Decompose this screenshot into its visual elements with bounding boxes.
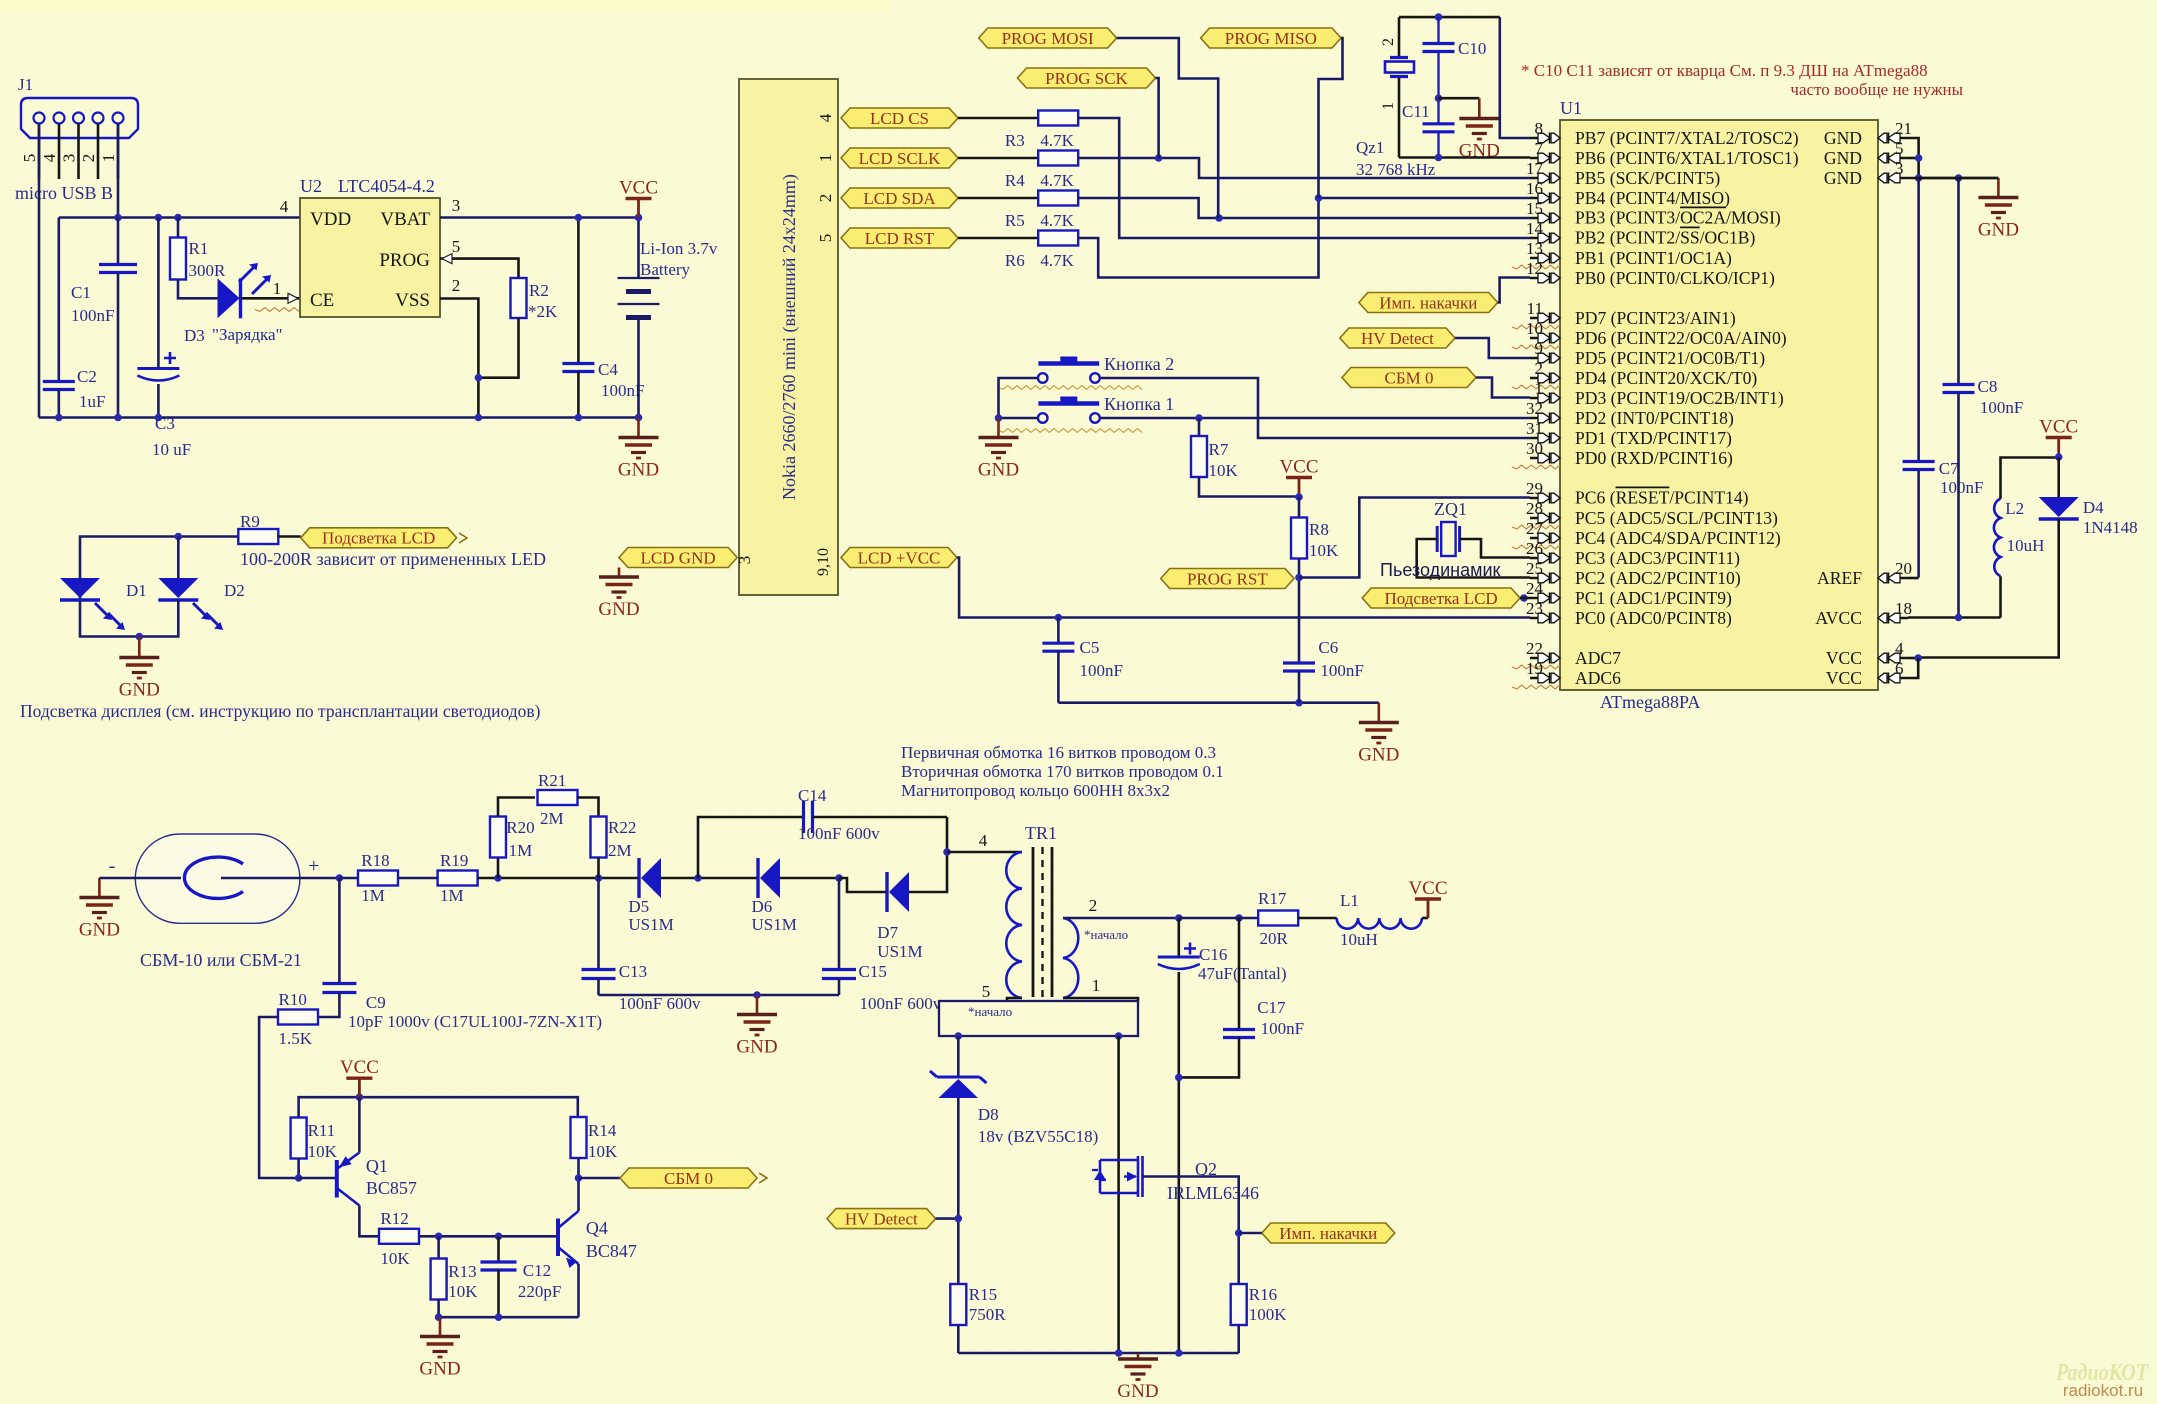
- svg-text:1M: 1M: [509, 841, 533, 860]
- svg-text:13: 13: [1526, 239, 1543, 258]
- wire GND bottom rail: [39, 416, 639, 419]
- svg-text:27: 27: [1526, 519, 1544, 538]
- svg-text:100nF: 100nF: [1940, 478, 1983, 497]
- wire D3 to CE pin 1: [241, 297, 300, 300]
- svg-text:D5: D5: [628, 897, 649, 916]
- svg-text:PROG RST: PROG RST: [1187, 569, 1268, 588]
- svg-text:LCD CS: LCD CS: [870, 109, 929, 128]
- svg-text:C12: C12: [523, 1261, 551, 1280]
- svg-text:-: -: [109, 855, 116, 877]
- capacitor C4: [577, 218, 580, 364]
- pin 29 PC6: [1530, 497, 1547, 500]
- svg-text:LTC4054-4.2: LTC4054-4.2: [338, 176, 435, 196]
- svg-text:C16: C16: [1199, 945, 1227, 964]
- svg-text:L1: L1: [1340, 891, 1359, 910]
- svg-text:PC3 (ADC3/PCINT11): PC3 (ADC3/PCINT11): [1575, 548, 1740, 568]
- wire Имп. накачки to PB0: [1498, 278, 1530, 303]
- svg-text:12: 12: [1526, 259, 1543, 278]
- pin 11 PD7: [1530, 317, 1547, 320]
- svg-text:ADC7: ADC7: [1575, 648, 1621, 668]
- svg-text:1: 1: [1380, 102, 1397, 110]
- wire PROG RST to PC6: [1299, 498, 1530, 578]
- svg-text:100nF: 100nF: [71, 306, 114, 325]
- svg-text:СБМ-10 или СБМ-21: СБМ-10 или СБМ-21: [140, 950, 302, 970]
- pin 4 VCC: [1891, 657, 1908, 660]
- pin 9 PD5: [1530, 357, 1547, 360]
- IC U2 LTC4054-4.2: [300, 198, 440, 317]
- capacitor C15: [838, 878, 841, 970]
- svg-text:100nF 600v: 100nF 600v: [798, 824, 880, 843]
- pin 26 PC3: [1530, 557, 1547, 560]
- net flag Подсветка LCD left: [301, 528, 457, 548]
- pin 24 PC1: [1530, 597, 1547, 600]
- svg-text:C10: C10: [1458, 39, 1486, 58]
- wire step down to D7: [839, 878, 887, 892]
- capacitor C1: [117, 218, 120, 265]
- svg-text:C2: C2: [77, 367, 97, 386]
- svg-text:100nF: 100nF: [1261, 1019, 1304, 1038]
- capacitor C2: [57, 218, 60, 382]
- svg-text:4: 4: [280, 197, 289, 216]
- svg-text:28: 28: [1526, 499, 1543, 518]
- svg-text:Подсветка LCD: Подсветка LCD: [1385, 589, 1498, 608]
- net flag PROG MISO: [1201, 28, 1341, 48]
- pin 19 ADC6: [1530, 677, 1547, 680]
- svg-text:GND: GND: [598, 599, 639, 620]
- svg-text:Имп. накачки: Имп. накачки: [1379, 293, 1477, 312]
- svg-text:ATmega88PA: ATmega88PA: [1600, 692, 1700, 712]
- wire СБМ 0 to PD3: [1476, 378, 1530, 398]
- pin 2 PD4: [1530, 377, 1547, 380]
- pin 7 PB6: [1530, 157, 1547, 160]
- wire D6 to C15 node: [780, 877, 839, 880]
- svg-text:21: 21: [1895, 119, 1912, 138]
- LED D2: [177, 537, 180, 579]
- svg-text:6: 6: [1895, 659, 1904, 678]
- net flag Подсветка LCD right: [1362, 588, 1520, 608]
- pin 20 AREF: [1891, 577, 1908, 580]
- net flag LCD GND: [619, 548, 737, 568]
- svg-text:R9: R9: [240, 512, 260, 531]
- svg-text:16: 16: [1526, 179, 1543, 198]
- pin 30 PD0: [1530, 457, 1547, 460]
- resistor R21: [538, 790, 578, 805]
- resistor R2: [511, 278, 527, 318]
- svg-text:300R: 300R: [189, 261, 227, 280]
- node VDD junctions: [114, 214, 122, 222]
- svg-text:PROG MOSI: PROG MOSI: [1002, 29, 1094, 48]
- svg-text:R13: R13: [448, 1262, 476, 1281]
- svg-text:2: 2: [1380, 38, 1397, 46]
- svg-text:C14: C14: [798, 786, 827, 805]
- wire VDD rail: [59, 216, 300, 219]
- resistor R17: [1258, 911, 1298, 926]
- svg-text:"Зарядка": "Зарядка": [212, 325, 282, 344]
- svg-text:Подсветка LCD: Подсветка LCD: [322, 529, 435, 548]
- wire R9 to flag: [278, 535, 300, 538]
- svg-text:Кнопка 2: Кнопка 2: [1104, 354, 1174, 374]
- wire VCC pins 4 6: [1908, 657, 1918, 660]
- TR1 pin 5 stub: [1007, 998, 1022, 1001]
- svg-text:LCD SDA: LCD SDA: [863, 189, 936, 208]
- svg-text:micro USB B: micro USB B: [15, 183, 113, 203]
- svg-text:14: 14: [1526, 219, 1544, 238]
- svg-text:47uF(Tantal): 47uF(Tantal): [1198, 964, 1287, 983]
- svg-text:R10: R10: [279, 990, 307, 1009]
- capacitor C9: [338, 878, 341, 984]
- crystal Qz1: [1398, 17, 1401, 57]
- wire D5 to D6: [661, 877, 758, 880]
- svg-text:PD1 (TXD/PCINT17): PD1 (TXD/PCINT17): [1575, 428, 1732, 448]
- wire D7 to TR1 pin4 node: [909, 817, 947, 892]
- svg-text:CE: CE: [310, 290, 334, 311]
- capacitor C8: [1957, 178, 1960, 385]
- svg-text:ZQ1: ZQ1: [1434, 499, 1467, 519]
- wire LCD +VCC to PC0 row: [957, 558, 1530, 618]
- svg-text:US1M: US1M: [628, 915, 673, 934]
- wire bottom ground rail: [958, 1352, 1238, 1355]
- TR1 secondary winding: [1063, 918, 1078, 998]
- svg-text:10K: 10K: [448, 1282, 478, 1301]
- svg-text:1.5K: 1.5K: [279, 1029, 313, 1048]
- ground GND at battery: [637, 418, 640, 438]
- resistor R3: [1038, 111, 1078, 126]
- svg-text:24: 24: [1526, 579, 1544, 598]
- LED D3: [218, 278, 240, 318]
- svg-text:R5: R5: [1005, 211, 1025, 230]
- svg-text:Q4: Q4: [586, 1218, 608, 1238]
- svg-text:VCC: VCC: [619, 178, 658, 199]
- diode D4 1N4148: [2057, 458, 2060, 498]
- ground GND bottom: [1137, 1353, 1140, 1359]
- svg-text:GND: GND: [1824, 168, 1862, 188]
- button Кнопка 1: [1038, 413, 1048, 423]
- ground GND backlight: [138, 637, 141, 658]
- svg-text:C6: C6: [1318, 638, 1338, 657]
- net flag LCD CS: [841, 108, 958, 128]
- svg-text:Пьезодинамик: Пьезодинамик: [1380, 560, 1501, 580]
- resistor R10: [278, 1010, 318, 1025]
- TR1 primary winding: [947, 851, 1022, 854]
- svg-text:Магнитопровод кольцо 600НН 8x3: Магнитопровод кольцо 600НН 8x3x2: [901, 781, 1170, 800]
- svg-text:VCC: VCC: [1826, 668, 1862, 688]
- zener D8 BZV55C18: [957, 1036, 960, 1077]
- wire VSS pin 2 to GND rail and R2: [440, 299, 478, 418]
- svg-text:D7: D7: [877, 923, 898, 942]
- wire Кнопка 2 to PD1: [1100, 378, 1530, 438]
- svg-text:R12: R12: [380, 1209, 408, 1228]
- svg-text:HV Detect: HV Detect: [845, 1209, 918, 1228]
- svg-text:4: 4: [1895, 639, 1904, 658]
- svg-text:GND: GND: [978, 460, 1019, 481]
- pin 27 PC4: [1530, 537, 1547, 540]
- svg-text:3: 3: [1895, 159, 1904, 178]
- svg-text:R8: R8: [1309, 520, 1329, 539]
- svg-text:R3: R3: [1005, 131, 1025, 150]
- svg-text:1: 1: [1535, 379, 1544, 398]
- svg-text:10uH: 10uH: [2007, 536, 2045, 555]
- ground GND far right: [1919, 177, 1999, 180]
- svg-text:Первичная обмотка 16 витков пр: Первичная обмотка 16 витков проводом 0.3: [901, 743, 1216, 762]
- svg-text:J1: J1: [18, 75, 33, 94]
- net flag СБМ 0 bottom: [579, 1177, 621, 1180]
- svg-text:PB3 (PCINT3/OC2A/MOSI): PB3 (PCINT3/OC2A/MOSI): [1575, 208, 1781, 228]
- svg-text:R22: R22: [608, 818, 636, 837]
- svg-text:4.7K: 4.7K: [1040, 131, 1074, 150]
- ground GND at C5 C6: [1378, 703, 1381, 723]
- svg-text:часто вообще не нужны: часто вообще не нужны: [1790, 80, 1963, 99]
- wire PROG MISO to PB4 net: [1319, 38, 1343, 198]
- svg-text:1N4148: 1N4148: [2083, 518, 2138, 537]
- pin 6 VCC: [1891, 677, 1908, 680]
- svg-text:LCD RST: LCD RST: [865, 229, 935, 248]
- svg-text:15: 15: [1526, 199, 1543, 218]
- pin 32 PD2: [1530, 417, 1547, 420]
- J1 pin stubs and numbers: [38, 124, 41, 180]
- svg-text:220pF: 220pF: [518, 1282, 561, 1301]
- svg-text:PB7 (PCINT7/XTAL2/TOSC2): PB7 (PCINT7/XTAL2/TOSC2): [1575, 128, 1799, 148]
- pin 12 PB0: [1530, 277, 1547, 280]
- wire Q1 Q4 bottom rail: [439, 1316, 579, 1319]
- svg-text:R6: R6: [1005, 251, 1025, 270]
- svg-text:GND: GND: [736, 1037, 777, 1058]
- wire J1 pin1 to VDD rail: [117, 124, 120, 218]
- svg-text:PC2 (ADC2/PCINT10): PC2 (ADC2/PCINT10): [1575, 568, 1741, 588]
- net flag СБМ 0 top: [1342, 368, 1476, 388]
- pin 3 GND: [1891, 177, 1908, 180]
- capacitor C7: [1917, 178, 1920, 462]
- wire HV Detect to PD5: [1455, 338, 1530, 358]
- resistor R7: [1198, 418, 1201, 436]
- svg-text:3: 3: [452, 196, 461, 215]
- wire R17 to L1: [1298, 917, 1337, 920]
- button Кнопка 2: [1038, 373, 1048, 383]
- svg-text:U2: U2: [300, 176, 322, 196]
- svg-text:31: 31: [1526, 419, 1543, 438]
- svg-text:R18: R18: [361, 851, 389, 870]
- svg-text:R21: R21: [538, 771, 566, 790]
- wire AVCC pin 18 row: [1908, 616, 2001, 619]
- svg-text:C13: C13: [619, 962, 647, 981]
- svg-text:BC857: BC857: [366, 1178, 417, 1198]
- svg-text:VCC: VCC: [1826, 648, 1862, 668]
- ground GND at crystal: [1478, 98, 1481, 118]
- svg-text:US1M: US1M: [752, 915, 797, 934]
- svg-text:8: 8: [1535, 119, 1544, 138]
- diode D5 US1M: [637, 858, 640, 898]
- svg-text:Q1: Q1: [366, 1156, 388, 1176]
- svg-text:1uF: 1uF: [79, 392, 105, 411]
- svg-text:LCD SCLK: LCD SCLK: [859, 149, 941, 168]
- wire pin2 to R17: [1179, 917, 1259, 920]
- resistor R9: [238, 529, 278, 544]
- svg-text:HV Detect: HV Detect: [1361, 329, 1434, 348]
- net flag LCD SDA: [841, 188, 958, 208]
- svg-text:AVCC: AVCC: [1815, 608, 1862, 628]
- capacitor C10: [1437, 17, 1439, 43]
- svg-text:20: 20: [1895, 559, 1912, 578]
- net flag PROG SCK: [1018, 68, 1156, 88]
- inductor L1: [1337, 918, 1422, 929]
- svg-text:3: 3: [60, 154, 79, 163]
- wire PB4 row: [1319, 197, 1531, 200]
- wire PROG SCK to R4 row: [1156, 78, 1159, 158]
- resistor R19: [398, 877, 438, 880]
- svg-text:20R: 20R: [1260, 929, 1289, 948]
- svg-text:10K: 10K: [588, 1142, 618, 1161]
- svg-text:23: 23: [1526, 599, 1543, 618]
- wire C5 C6 ground rail: [1058, 701, 1378, 704]
- svg-text:10K: 10K: [1209, 461, 1239, 480]
- svg-text:+: +: [308, 855, 319, 877]
- svg-text:17: 17: [1526, 159, 1544, 178]
- svg-text:PB5 (SCK/PCINT5): PB5 (SCK/PCINT5): [1575, 168, 1720, 188]
- TR1 pin 2 wire: [1063, 917, 1179, 920]
- pin 31 PD1: [1530, 437, 1547, 440]
- svg-text:30: 30: [1526, 439, 1543, 458]
- svg-text:29: 29: [1526, 479, 1543, 498]
- connector J1 micro USB B: [21, 98, 138, 138]
- svg-text:PC4 (ADC4/SDA/PCINT12): PC4 (ADC4/SDA/PCINT12): [1575, 528, 1781, 548]
- svg-text:100nF: 100nF: [1320, 661, 1363, 680]
- svg-text:R2: R2: [529, 281, 549, 300]
- svg-text:Подсветка дисплея (см. инструк: Подсветка дисплея (см. инструкцию по тра…: [20, 701, 541, 721]
- svg-text:Кнопка 1: Кнопка 1: [1104, 394, 1174, 414]
- diode D6 US1M: [756, 858, 759, 898]
- svg-text:TR1: TR1: [1025, 823, 1057, 843]
- svg-text:C8: C8: [1978, 377, 1998, 396]
- pin 28 PC5: [1530, 517, 1547, 520]
- resistor R14: [571, 1117, 587, 1158]
- svg-text:PC6 (RESET/PCINT14): PC6 (RESET/PCINT14): [1575, 488, 1749, 508]
- svg-text:*начало: *начало: [968, 1004, 1012, 1019]
- svg-text:PC5 (ADC5/SCL/PCINT13): PC5 (ADC5/SCL/PCINT13): [1575, 508, 1778, 528]
- wire R12 to Q4 base: [419, 1235, 558, 1238]
- resistor R6: [1038, 231, 1078, 246]
- ground GND at buttons: [997, 418, 1000, 438]
- ground GND right of U1: [1997, 178, 2000, 198]
- svg-text:VCC: VCC: [1279, 457, 1318, 478]
- ground GND at multiplier: [756, 995, 759, 1015]
- transistor Q4 BC847 npn: [556, 1219, 560, 1257]
- svg-text:PD7 (PCINT23/AIN1): PD7 (PCINT23/AIN1): [1575, 308, 1736, 328]
- capacitor C3 polarized: [157, 218, 160, 369]
- pin 10 PD6: [1530, 337, 1547, 340]
- svg-text:AREF: AREF: [1817, 568, 1862, 588]
- svg-text:100nF 600v: 100nF 600v: [619, 994, 701, 1013]
- svg-text:C17: C17: [1257, 998, 1286, 1017]
- power VCC at L2 D4: [2057, 438, 2060, 457]
- svg-text:C7: C7: [1939, 459, 1959, 478]
- pin 14 PB2: [1530, 237, 1547, 240]
- svg-text:32: 32: [1526, 399, 1543, 418]
- TR1 pin 1 wire: [1063, 998, 1138, 1001]
- net flag Имп. накачки top: [1359, 293, 1498, 313]
- svg-text:R14: R14: [588, 1121, 617, 1140]
- resistor R12: [379, 1229, 419, 1244]
- svg-text:C1: C1: [71, 283, 91, 302]
- svg-text:D8: D8: [978, 1105, 999, 1124]
- capacitor C16 tantal: [1178, 918, 1181, 957]
- ground GND at tube minus: [98, 878, 101, 898]
- Geiger tube СБМ-10: [135, 834, 300, 923]
- svg-text:4: 4: [40, 153, 59, 162]
- pin 18 AVCC: [1891, 617, 1908, 620]
- svg-text:radiokot.ru: radiokot.ru: [2063, 1381, 2143, 1400]
- svg-text:10pF 1000v (C17UL100J-7ZN-X1T): 10pF 1000v (C17UL100J-7ZN-X1T): [348, 1012, 602, 1031]
- svg-text:10K: 10K: [308, 1142, 338, 1161]
- svg-text:2M: 2M: [608, 841, 632, 860]
- node HV junction: [336, 874, 344, 882]
- svg-text:GND: GND: [1117, 1381, 1158, 1402]
- resistor R20: [497, 857, 500, 878]
- capacitor C14: [698, 817, 804, 878]
- svg-text:PC0 (ADC0/PCINT8): PC0 (ADC0/PCINT8): [1575, 608, 1732, 628]
- svg-text:100-200R зависит от примененны: 100-200R зависит от примененных LED: [240, 549, 546, 569]
- svg-text:Вторичная обмотка 170 витков п: Вторичная обмотка 170 витков проводом 0.…: [901, 762, 1224, 781]
- svg-text:СБМ 0: СБМ 0: [664, 1169, 713, 1188]
- wire PROG pin 5 to R2: [440, 259, 519, 278]
- wire backlight top rail: [80, 537, 239, 602]
- svg-text:R16: R16: [1249, 1285, 1277, 1304]
- svg-text:18: 18: [1895, 599, 1912, 618]
- svg-text:1M: 1M: [440, 886, 464, 905]
- svg-text:C15: C15: [859, 962, 887, 981]
- pin 17 PB5: [1530, 177, 1547, 180]
- svg-text:10K: 10K: [1309, 541, 1339, 560]
- resistor R16: [1231, 1284, 1247, 1325]
- svg-text:GND: GND: [1358, 745, 1399, 766]
- svg-text:GND: GND: [1978, 220, 2019, 241]
- ground GND at Q4: [439, 1317, 442, 1336]
- svg-text:VCC: VCC: [340, 1057, 379, 1078]
- pin 1 PD3: [1530, 397, 1547, 400]
- wire Кнопка 1 to PD2: [1100, 417, 1530, 420]
- svg-text:10uH: 10uH: [1340, 930, 1378, 949]
- svg-text:LCD GND: LCD GND: [641, 548, 716, 567]
- svg-text:1M: 1M: [361, 886, 385, 905]
- svg-text:R17: R17: [1258, 889, 1287, 908]
- svg-text:C4: C4: [598, 360, 618, 379]
- svg-text:2: 2: [79, 154, 98, 163]
- resistor R18: [339, 877, 358, 880]
- pin 22 ADC7: [1530, 657, 1547, 660]
- wire through tube anode: [99, 877, 181, 880]
- wire R5 to PB3 row: [1078, 198, 1530, 218]
- wire R4 to PB5 row: [1078, 158, 1530, 178]
- wire VBAT pin 3 to battery: [440, 216, 639, 219]
- wire ZQ1 left to PC2: [1417, 539, 1530, 578]
- svg-text:PB6 (PCINT6/XTAL1/TOSC1): PB6 (PCINT6/XTAL1/TOSC1): [1575, 148, 1799, 168]
- svg-text:5: 5: [1895, 139, 1904, 158]
- svg-text:СБМ 0: СБМ 0: [1385, 368, 1434, 387]
- wire R6 up to PB4 net: [1078, 198, 1318, 278]
- svg-text:10: 10: [1526, 319, 1543, 338]
- pin 5 GND: [1891, 157, 1908, 160]
- diode D7 US1M: [885, 872, 888, 912]
- power VCC output: [1422, 917, 1428, 920]
- capacitor C11: [1437, 52, 1439, 124]
- svg-text:*2K: *2K: [528, 302, 558, 321]
- svg-text:R4: R4: [1005, 171, 1025, 190]
- svg-text:4.7K: 4.7K: [1040, 211, 1074, 230]
- svg-text:2: 2: [452, 276, 461, 295]
- svg-text:7: 7: [1535, 139, 1544, 158]
- svg-text:PB2 (PCINT2/SS/OC1B): PB2 (PCINT2/SS/OC1B): [1575, 228, 1756, 248]
- svg-text:PD5 (PCINT21/OC0B/T1): PD5 (PCINT21/OC0B/T1): [1575, 348, 1765, 368]
- capacitor C12: [497, 1236, 500, 1262]
- svg-text:GND: GND: [618, 460, 659, 481]
